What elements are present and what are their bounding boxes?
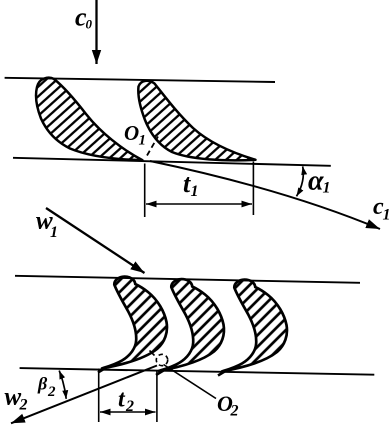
vector c0 xyxy=(95,0,97,64)
label t2 xyxy=(118,387,134,416)
angle alpha1 arc xyxy=(297,166,304,196)
svg-text:0: 0 xyxy=(86,17,93,32)
wire row2 bottom cascade line xyxy=(20,368,375,375)
stator blade S1 xyxy=(36,78,142,161)
svg-text:2: 2 xyxy=(230,403,239,420)
svg-text:1: 1 xyxy=(139,133,147,149)
vector w1 xyxy=(46,208,145,273)
label w1 xyxy=(36,208,58,242)
stator blade S2 xyxy=(138,81,255,161)
svg-text:2: 2 xyxy=(47,384,56,400)
wire row1 bottom cascade line xyxy=(13,158,331,166)
rotor blade R1 xyxy=(102,277,167,369)
angle beta2 arc xyxy=(59,371,66,399)
rotor blade R2 tail tip crossing line xyxy=(156,369,166,375)
label beta2 xyxy=(37,374,56,401)
dimension t2 arrow xyxy=(100,411,156,413)
svg-text:2: 2 xyxy=(19,397,28,414)
svg-text:1: 1 xyxy=(383,207,389,224)
label c0 xyxy=(75,3,93,32)
wire row1 top cascade line xyxy=(5,78,275,82)
label t1 xyxy=(183,169,199,200)
svg-text:t: t xyxy=(118,387,126,413)
svg-text:1: 1 xyxy=(50,224,58,241)
rotor blade R2 xyxy=(159,279,224,371)
svg-text:2: 2 xyxy=(125,398,134,415)
label O2 xyxy=(217,391,239,420)
label alpha1 xyxy=(308,166,331,197)
label c1 xyxy=(373,194,389,224)
svg-text:O: O xyxy=(124,121,139,145)
label O1 xyxy=(124,121,146,149)
label w2 xyxy=(5,384,28,414)
dimension t2 left extension line xyxy=(98,369,100,423)
dimension t1 arrow xyxy=(146,203,252,205)
node O2 throat dashed circle xyxy=(156,354,167,365)
node O2 pointer line xyxy=(164,365,217,399)
wire row2 top cascade line xyxy=(15,276,360,283)
node O1 throat dashed line xyxy=(147,137,158,156)
node O2 throat extra dash xyxy=(150,351,155,356)
dimension t2 right extension line xyxy=(156,371,158,422)
dimension t1 left extension line xyxy=(144,164,146,218)
rotor blade R3 xyxy=(222,280,287,372)
rotor blade R3 tail tip crossing line xyxy=(218,370,228,376)
svg-text:1: 1 xyxy=(191,183,199,200)
svg-text:1: 1 xyxy=(323,180,331,197)
vector c1 xyxy=(150,161,380,229)
rotor blade R1 tail tip crossing line xyxy=(98,367,108,373)
vector w2 xyxy=(11,366,157,424)
dimension t1 right extension line xyxy=(252,162,254,216)
svg-text:β: β xyxy=(37,374,48,394)
